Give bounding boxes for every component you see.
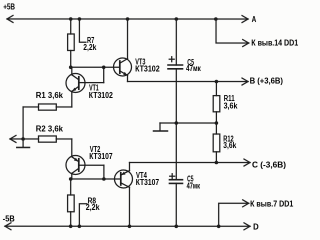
label C5 47mk lower: [187, 175, 200, 191]
arrow left end of +5V rail: [7, 15, 13, 22]
resistor R12: [213, 123, 220, 163]
svg-text:47мк: 47мк: [186, 64, 201, 73]
wire to pin 14 DD1: [216, 19, 249, 43]
svg-text:КТ3107: КТ3107: [136, 178, 159, 187]
junction dot top rail at R7 leader: [78, 17, 82, 21]
arrow left input: [10, 135, 16, 142]
capacitor C5 upper: [168, 19, 183, 123]
wire middle ground rail: [160, 122, 216, 124]
junction dot top rail at pin14 branch: [214, 17, 218, 21]
label K vyv.7 DD1: [250, 199, 294, 208]
label VT4 KT3107: [136, 171, 159, 187]
junction dot middle rail at R11/R12: [215, 121, 219, 125]
junction dot middle rail at C5: [174, 121, 178, 125]
wire left input line: [10, 138, 39, 140]
svg-text:R2 3,6k: R2 3,6k: [36, 125, 64, 134]
arrow K vyv.7 DD1: [243, 200, 249, 207]
svg-text:D: D: [253, 222, 259, 231]
wire output B line: [128, 80, 249, 82]
resistor R7: [68, 19, 75, 67]
resistor R11: [213, 82, 220, 124]
svg-text:3,6k: 3,6k: [223, 141, 237, 150]
svg-text:2,2k: 2,2k: [83, 43, 97, 52]
junction dot bottom rail at VT4 collector: [128, 224, 132, 228]
junction dot bottom rail at pin7 branch: [217, 225, 221, 229]
arrow output A: [242, 16, 248, 23]
svg-text:2,2k: 2,2k: [86, 203, 100, 212]
junction dot top rail at VT3 collector: [126, 17, 130, 21]
svg-text:3,6k: 3,6k: [224, 101, 238, 110]
label R8 2,2k: [86, 197, 101, 212]
wire to pin 7 DD1: [219, 203, 249, 226]
arrow left end of -5V rail: [5, 223, 11, 230]
label VT2 KT3107: [89, 145, 112, 161]
junction dot bottom rail at C5 lower: [174, 225, 178, 229]
svg-text:C (-3,6В): C (-3,6В): [252, 160, 286, 169]
svg-text:+5В: +5В: [3, 3, 15, 12]
label B (+3,6V): [250, 77, 284, 86]
capacitor C5 lower: [169, 123, 182, 226]
label +5V: [3, 3, 15, 12]
ground symbol middle rail: [153, 123, 167, 131]
junction dot bottom rail at R8 leader: [78, 224, 82, 228]
label D: [253, 222, 259, 231]
label A: [252, 15, 257, 24]
ground symbol left node: [17, 139, 30, 148]
junction dot top rail at C5: [175, 17, 179, 21]
label K vyv.14 DD1: [251, 38, 298, 47]
transistor VT1 KT3102: [66, 67, 104, 107]
junction dot B line at R11: [215, 80, 219, 84]
node line upper bias (R7 / VT1 / VT3 base): [71, 66, 120, 68]
resistor R2: [38, 136, 71, 156]
label VT1 KT3102: [89, 83, 114, 100]
svg-text:К выв.7 DD1: К выв.7 DD1: [250, 199, 294, 208]
junction dot lower bias node at R8: [69, 177, 73, 181]
wire output C line: [129, 161, 250, 163]
label R2 3,6k: [36, 125, 64, 134]
label VT3 KT3102: [135, 57, 160, 73]
arrow K vyv.14 DD1: [243, 40, 249, 47]
wire top rail +5V: [7, 18, 248, 20]
leader line R7 label: [79, 19, 86, 42]
leader line R8 label: [79, 204, 87, 227]
label R1 3,6k: [36, 91, 64, 100]
junction dot bottom rail at R8: [69, 224, 73, 228]
junction dot left node: [21, 137, 25, 141]
label C5 47mk upper: [186, 58, 201, 73]
transistor VT2 KT3107: [66, 155, 104, 179]
junction dot upper bias node at R7: [69, 65, 73, 69]
label C (-3,6V): [252, 160, 286, 169]
label R11 3,6k: [224, 94, 238, 111]
resistor R1: [23, 104, 72, 139]
wire bottom rail -5V: [5, 225, 250, 227]
svg-text:-5В: -5В: [3, 215, 15, 224]
arrow output C: [244, 159, 250, 166]
junction dot top rail at R7: [69, 17, 73, 21]
label R12 3,6k: [223, 134, 237, 150]
junction dot upper bias node at VT1 base branch: [102, 65, 106, 69]
junction dot C line at R12: [215, 161, 219, 165]
junction dot lower bias node at VT2 base branch: [102, 177, 106, 181]
label -5V: [3, 215, 15, 224]
resistor R8: [68, 179, 75, 226]
svg-text:КТ3107: КТ3107: [89, 152, 112, 161]
label R7 2,2k: [83, 36, 97, 52]
arrow output B: [242, 78, 248, 85]
transistor VT3 KT3102: [114, 19, 132, 82]
svg-text:47мк: 47мк: [187, 182, 200, 191]
svg-text:R1 3,6k: R1 3,6k: [36, 91, 64, 100]
svg-text:B (+3,6В): B (+3,6В): [250, 77, 284, 86]
svg-text:КТ3102: КТ3102: [89, 91, 114, 100]
svg-text:КТ3102: КТ3102: [135, 64, 160, 73]
transistor VT4 KT3107: [114, 162, 132, 226]
svg-text:К выв.14 DD1: К выв.14 DD1: [251, 38, 298, 47]
arrow output D: [244, 223, 250, 230]
node line lower bias (R8 / VT2 / VT4 base): [71, 178, 121, 180]
svg-text:A: A: [252, 15, 257, 24]
